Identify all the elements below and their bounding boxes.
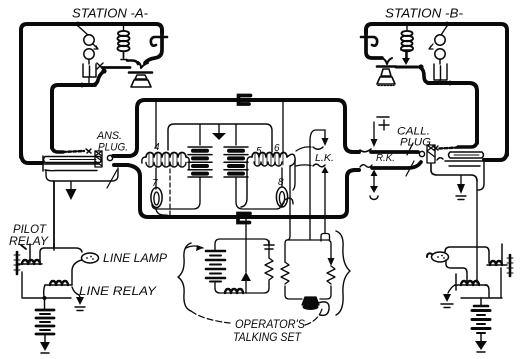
jack A stub from inner wire	[52, 146, 63, 152]
capacitor stack 2	[224, 147, 248, 177]
capacitor station A	[83, 59, 96, 77]
winding 4	[142, 153, 189, 171]
feed tick B	[401, 50, 411, 58]
wire top conductor: ans plug to top run	[113, 100, 359, 156]
call plug tip	[419, 151, 424, 156]
battery arrow mid	[218, 124, 220, 133]
transmitter A	[138, 62, 148, 68]
wire bottom conductor: ans plug sleeve to bottom run	[114, 165, 359, 217]
ringer bell gong 2	[84, 49, 94, 59]
lamp 7	[151, 188, 162, 208]
wire winding6 end down to set	[287, 166, 290, 240]
svg-text:STATION -A-: STATION -A-	[72, 6, 149, 21]
hook switch A	[151, 37, 167, 46]
winding 5-6	[241, 153, 295, 208]
leader curve left	[191, 311, 230, 323]
jack B spring top (dashed)	[438, 148, 458, 149]
RK feed arrow	[373, 122, 375, 139]
wire: station B top loop	[366, 24, 507, 155]
wire capacitor to bottom	[88, 77, 90, 85]
node B mid	[418, 64, 423, 69]
wire relay top bar right	[445, 247, 489, 263]
leader curve right	[305, 309, 322, 325]
wire lamp8 curl to line	[282, 198, 293, 207]
wire bottom conductor to call plug sleeve	[372, 162, 421, 168]
LK bridge hook	[321, 234, 330, 242]
set transmitter (carbon)	[245, 239, 247, 272]
relay coil right	[487, 264, 507, 266]
wire stack2 top	[235, 124, 237, 145]
RK arrow up	[371, 170, 378, 177]
induction coil A	[118, 24, 130, 58]
wire plug sleeve down to relay	[476, 181, 478, 283]
svg-text:STATION -B-: STATION -B-	[385, 6, 464, 21]
left brace	[178, 243, 191, 311]
wire lamp down to contact	[446, 260, 467, 283]
svg-text:ANS.: ANS.	[96, 130, 122, 142]
battery stack right	[480, 298, 482, 306]
svg-text:RELAY: RELAY	[9, 236, 49, 248]
line relay coil	[45, 284, 72, 286]
jack A spring long	[44, 157, 102, 163]
jack B sleeve drop	[478, 161, 484, 190]
svg-text:PILOT: PILOT	[13, 224, 47, 236]
resistor zig right-loop left	[281, 262, 289, 284]
jack B lower spring	[445, 161, 484, 166]
node B bottom	[448, 81, 453, 86]
ringer bell gong 2 B	[435, 49, 445, 59]
resistor zig left-loop	[265, 250, 273, 284]
wire call plug sleeve down-right	[431, 164, 477, 181]
capacitor bracket on right edge	[264, 241, 274, 249]
feed arrow into set battery	[186, 246, 203, 248]
transmitter B	[382, 58, 392, 64]
cord slash call upper	[407, 143, 413, 155]
wire: station A top loop	[21, 24, 162, 157]
LK feed curves	[296, 147, 311, 166]
wire top to winding 4	[155, 101, 157, 148]
wire relay top bar	[40, 248, 82, 262]
tick A	[97, 63, 103, 69]
wire left outer to jack	[21, 152, 42, 163]
LK lower contact	[313, 164, 325, 167]
battery arrow under jack A	[70, 181, 72, 189]
wire transmitter to node B	[396, 66, 418, 69]
svg-text:LINE LAMP: LINE LAMP	[103, 253, 167, 265]
wire right outer to jack B	[484, 150, 507, 160]
wire: station B bottom	[428, 83, 477, 143]
left loop of set	[215, 239, 269, 250]
ans plug body (hatched)	[95, 151, 102, 167]
wire top to winding 6	[282, 101, 284, 152]
armature right	[509, 255, 512, 276]
wire: station A bottom	[52, 85, 95, 148]
wire diode branch from bottom conductor	[245, 219, 247, 239]
LK loop	[310, 130, 325, 141]
pilot relay armature	[16, 252, 19, 274]
wire winding6 to lamp8	[281, 168, 283, 187]
wire lamp7 to bottom	[156, 209, 170, 217]
LK left vertical down	[309, 141, 311, 240]
svg-text:8: 8	[278, 177, 284, 188]
wire stack2 bottom	[236, 177, 281, 209]
ringer bell gong 1	[84, 35, 94, 45]
capacitor on bottom conductor	[238, 214, 250, 223]
wire winding4 to lamp7	[155, 168, 157, 189]
svg-text:L.K.: L.K.	[315, 152, 334, 164]
coil tee A	[121, 53, 127, 60]
node A bottom	[80, 83, 85, 88]
wire node down to bottom B	[421, 68, 430, 83]
pilot relay coil	[18, 263, 42, 265]
right loop of set	[285, 240, 287, 262]
ringer bell gong 1 B	[435, 35, 445, 45]
resistor zig right-loop right	[327, 266, 335, 284]
ans plug tip	[107, 155, 112, 160]
jack A spring lower	[43, 164, 99, 171]
wire station B inner down to jack	[458, 140, 477, 147]
wire lamp left down	[72, 260, 82, 285]
right brace	[336, 231, 350, 315]
wire node down to bottom A	[91, 71, 104, 85]
svg-text:TALKING SET: TALKING SET	[233, 332, 302, 344]
set battery stack	[206, 251, 225, 282]
clapper B	[429, 44, 433, 49]
RK upper contact	[360, 149, 371, 152]
ground arrow under jack B	[460, 175, 462, 184]
induction coil B	[401, 24, 413, 58]
node A top	[76, 22, 81, 27]
wire x54 to top bar joint	[53, 244, 55, 250]
hook switch B	[361, 37, 377, 46]
wire capacitor to bottom B	[439, 80, 441, 83]
wire inner feed line	[168, 124, 272, 152]
ground left of relay2	[448, 285, 455, 293]
receiver cord curl	[318, 302, 329, 316]
wire bottom bar	[22, 272, 71, 298]
LK upper contact	[313, 147, 323, 149]
jack A spring top (dashed)	[63, 151, 84, 152]
node B top	[445, 22, 450, 27]
dashed core line	[169, 162, 171, 215]
set coil on bottom	[225, 289, 243, 293]
LK arrow up	[322, 167, 329, 174]
svg-text:4: 4	[154, 142, 160, 153]
cord slash call lower	[406, 161, 414, 176]
pilot relay contacts	[21, 245, 26, 249]
wire to ringer B	[441, 26, 447, 35]
arrow on right edge	[328, 258, 335, 266]
jack A contact mark	[86, 149, 91, 153]
generator symbol	[370, 186, 378, 193]
battery feed plus	[377, 116, 389, 118]
call plug body (hatched)	[427, 145, 435, 163]
line lamp right	[432, 252, 449, 262]
wire relay2 to bottom bar	[485, 285, 489, 297]
RK lower contact	[360, 165, 372, 168]
wire transmitter to node A	[102, 66, 130, 69]
wire top conductor to call plug tip	[371, 150, 418, 154]
lamp 8	[276, 187, 287, 207]
line lamp	[82, 253, 99, 263]
jack B contact mark	[433, 146, 438, 150]
capacitor on top conductor	[239, 96, 251, 105]
line relay coil 2	[455, 284, 487, 286]
battery stack left	[44, 298, 46, 309]
wire stack1 top	[199, 124, 201, 145]
capacitor station B	[434, 59, 447, 80]
svg-text:OPERATOR'S: OPERATOR'S	[235, 319, 305, 331]
LK arrow down	[324, 130, 326, 138]
node A mid	[101, 68, 106, 73]
clapper	[93, 44, 98, 49]
cord slash ans	[107, 170, 117, 188]
wire hook down to transmitter tee A	[145, 33, 162, 63]
jack B hook contact	[437, 158, 443, 160]
jack sleeve wire	[46, 168, 118, 181]
svg-text:R.K.: R.K.	[376, 152, 395, 164]
set receiver	[302, 297, 319, 305]
wire hook down to transmitter tee B	[366, 33, 382, 58]
wire stack1 bottom	[152, 177, 200, 209]
wire to ringer	[78, 26, 88, 35]
ground under line relay	[72, 287, 80, 297]
wire jack down to relay	[53, 181, 55, 248]
capacitor stack 1	[188, 147, 212, 177]
jack B spring long	[449, 152, 484, 158]
jack A frame	[42, 156, 44, 171]
svg-text:LINE RELAY: LINE RELAY	[79, 286, 158, 298]
